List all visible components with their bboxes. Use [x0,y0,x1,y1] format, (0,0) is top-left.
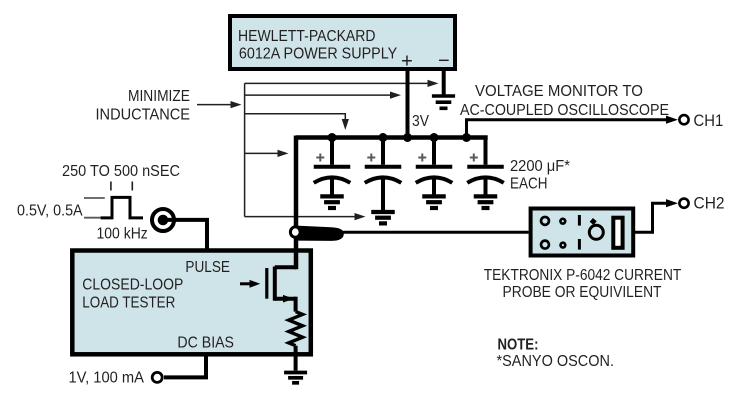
svg-text:NOTE:: NOTE: [498,337,539,354]
svg-text:−: − [438,50,450,72]
svg-text:MINIMIZE: MINIMIZE [128,88,190,105]
svg-text:LOAD TESTER: LOAD TESTER [82,295,175,312]
svg-text:HEWLETT-PACKARD: HEWLETT-PACKARD [238,28,376,45]
svg-text:PROBE OR EQUIVILENT: PROBE OR EQUIVILENT [503,284,662,301]
svg-text:INDUCTANCE: INDUCTANCE [96,107,191,124]
svg-text:CH2: CH2 [694,195,725,213]
svg-text:AC-COUPLED OSCILLOSCOPE: AC-COUPLED OSCILLOSCOPE [460,102,669,119]
svg-text:6012A POWER SUPPLY: 6012A POWER SUPPLY [239,46,398,63]
svg-text:CH1: CH1 [694,112,724,130]
svg-text:EACH: EACH [510,176,548,193]
svg-text:0.5V, 0.5A: 0.5V, 0.5A [17,203,83,220]
svg-text:100 kHz: 100 kHz [97,226,148,243]
svg-text:CLOSED-LOOP: CLOSED-LOOP [82,277,183,294]
svg-text:VOLTAGE MONITOR TO: VOLTAGE MONITOR TO [475,83,643,100]
svg-text:1V, 100 mA: 1V, 100 mA [69,370,145,387]
svg-text:DC BIAS: DC BIAS [177,335,234,352]
svg-text:PULSE: PULSE [185,259,230,276]
svg-text:*SANYO OSCON.: *SANYO OSCON. [497,353,615,370]
svg-text:3V: 3V [412,113,429,130]
svg-text:250 TO 500 nSEC: 250 TO 500 nSEC [62,163,180,180]
svg-text:2200 μF*: 2200 μF* [510,158,570,175]
svg-text:TEKTRONIX P-6042 CURRENT: TEKTRONIX P-6042 CURRENT [484,267,682,284]
